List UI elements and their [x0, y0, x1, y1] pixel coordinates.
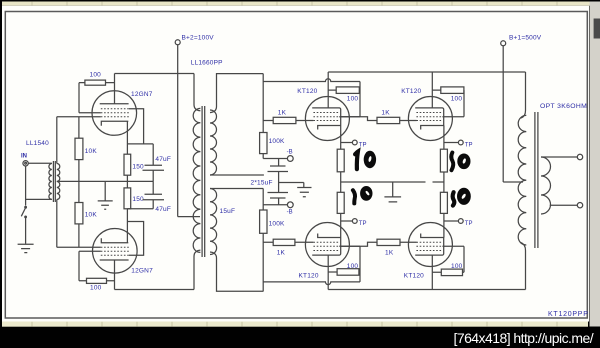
vacuum tube U1 12GN7 upper envelope — [92, 91, 137, 136]
svg-text:100: 100 — [90, 285, 102, 292]
transformer T2 secondary upper winding — [210, 110, 217, 175]
ground G4 — [384, 182, 401, 202]
vacuum tube U2 12GN7 lower envelope — [93, 229, 138, 274]
output terminal lower — [577, 203, 582, 208]
resistor 100 V2 screen — [432, 87, 464, 94]
wire mid ground bus — [57, 180, 153, 182]
transformer T2 primary lead bottom — [194, 250, 200, 289]
ruler ticks top strip — [32, 2, 557, 6]
transformer T1 secondary winding — [57, 164, 60, 200]
svg-text:LL1540: LL1540 — [26, 140, 49, 147]
V3 plate — [312, 238, 341, 256]
scrollbar thumb — [594, 19, 600, 39]
capacitor 47uF upper — [127, 144, 164, 182]
V2 grid g3 dashed — [416, 112, 442, 114]
resistor 150 upper — [124, 121, 131, 181]
test point TP4 — [444, 219, 463, 224]
resistor 100 V1 screen — [328, 87, 360, 94]
resistor 100 V3 screen — [328, 269, 360, 276]
svg-text:KT120: KT120 — [404, 273, 424, 280]
V4 plate — [415, 238, 444, 256]
U2 grid g3 dashed — [101, 254, 129, 256]
wire left chain bottom — [340, 213, 342, 237]
vacuum tube V3 KT120 lower-left envelope — [305, 223, 349, 267]
wire upper plate bus — [328, 71, 525, 73]
wire transformer primary bottom lead — [26, 198, 52, 200]
resistor 1K upper-left — [263, 117, 313, 123]
svg-text:100: 100 — [90, 71, 102, 78]
resistor 100K upper — [260, 133, 267, 159]
svg-text:KT120: KT120 — [299, 272, 319, 279]
svg-text:[764x418] http://upic.me/: [764x418] http://upic.me/ — [454, 330, 594, 346]
wire right cathode chain top — [443, 126, 445, 150]
handwritten 10 lower-left — [353, 186, 373, 203]
test point TP1 — [341, 140, 357, 145]
wire B+2 to LL1660 primary center tap — [178, 216, 200, 218]
V3 g2 stub right — [339, 245, 360, 247]
ruler ticks bottom strip — [32, 322, 557, 327]
V2 grid g1 dashed — [416, 120, 442, 122]
supply terminal B+2 — [175, 40, 180, 217]
wire feedback entry to U1 g2 row — [79, 112, 101, 114]
wire cathode ground bus — [341, 181, 444, 183]
wire U1 g3 to cathode node — [129, 109, 144, 144]
svg-text:100: 100 — [451, 263, 463, 270]
resistor 100 upper feedback — [79, 80, 115, 113]
U2 grid g1 dashed — [101, 246, 129, 248]
resistor 1K lower-mid — [339, 239, 416, 246]
V4 grid g2 dashed — [416, 245, 442, 247]
svg-text:TP: TP — [359, 221, 367, 227]
resistor 1K lower-left — [263, 239, 313, 245]
vacuum tube V4 KT120 lower-right envelope — [408, 223, 452, 267]
capacitor 2x15uF upper — [268, 159, 289, 183]
V1 plate — [312, 108, 341, 126]
resistor 10 ohm R-c — [440, 149, 447, 172]
V2 plate lead — [431, 72, 433, 108]
svg-text:-B: -B — [287, 150, 293, 156]
V1 grid g1 dashed — [313, 120, 339, 122]
T3 secondary bottom lead — [550, 204, 578, 206]
T2 secondary lower bottom lead — [210, 252, 263, 291]
V1 g2 stub right — [339, 116, 360, 118]
V2 plate — [415, 108, 444, 126]
V4 cathode — [421, 234, 444, 238]
handwritten 10 upper-right — [451, 153, 470, 171]
wire left cathode chain top — [340, 126, 342, 150]
resistor 10 ohm R-d — [440, 192, 447, 213]
resistor 100 V4 screen — [432, 269, 464, 276]
node bias column vertical upper — [262, 74, 264, 133]
wire jack to transformer primary top — [28, 162, 52, 164]
svg-text:IN: IN — [21, 153, 27, 159]
wire V1 screen node vertical — [359, 82, 361, 117]
transformer T3 core — [535, 112, 538, 248]
svg-text:TP: TP — [359, 142, 367, 148]
handwritten 10 upper-left — [355, 151, 376, 169]
transformer T3 secondary winding — [541, 157, 551, 214]
node bias column vertical lower — [262, 189, 264, 211]
wire U1 anode to LL1660 primary top — [115, 73, 195, 75]
transformer T2 secondary lower winding — [210, 189, 217, 255]
T2 secondary upper top lead — [210, 74, 263, 113]
transformer T3 OPT primary lead top — [521, 72, 526, 118]
svg-text:150: 150 — [132, 196, 144, 203]
wire cap top rail — [263, 158, 287, 160]
V2 grid g2 dashed — [416, 116, 442, 118]
capacitor 47uF lower — [127, 181, 164, 208]
resistor 10 ohm R-a — [337, 149, 344, 172]
T3 secondary top lead — [541, 156, 577, 158]
resistor 10 ohm R-b — [337, 192, 344, 213]
svg-text:2*15uF: 2*15uF — [251, 179, 273, 186]
wire grid drive entry to U1 g1 row — [57, 116, 101, 118]
svg-text:12GN7: 12GN7 — [131, 268, 153, 275]
U1 anode lead — [114, 74, 116, 104]
supply terminal B+1 — [501, 41, 506, 182]
svg-text:1K: 1K — [278, 110, 287, 117]
terminal -B lower — [287, 202, 293, 208]
svg-text:1K: 1K — [385, 249, 394, 256]
U2 plate — [100, 259, 129, 261]
V3 plate lead — [327, 255, 329, 289]
U1 grid g1 dashed — [101, 116, 129, 118]
U1 plate — [100, 103, 129, 105]
wire left chain mid — [340, 172, 342, 193]
transformer T2 core — [202, 106, 205, 257]
wire switch to ground — [25, 218, 27, 244]
U2 cathode — [101, 238, 128, 243]
wire lower plate bus — [328, 289, 525, 291]
svg-text:1K: 1K — [381, 110, 390, 117]
wire V2 screen node vertical — [463, 90, 465, 117]
wire feedback entry to U2 g2 row — [79, 250, 101, 252]
svg-text:100: 100 — [451, 96, 463, 103]
ground G1 — [18, 244, 34, 252]
V4 grid g1 dashed — [416, 241, 442, 243]
V3 grid g2 dashed — [313, 245, 339, 247]
svg-text:KT120: KT120 — [401, 88, 421, 95]
wire grid step upper with hop — [263, 79, 360, 82]
wire right chain bottom — [443, 213, 445, 237]
input jack J1 — [23, 161, 28, 166]
V3 grid g3 dashed — [313, 250, 339, 252]
svg-text:LL1660PP: LL1660PP — [191, 60, 223, 67]
wire cap bottom rail — [263, 204, 287, 206]
vacuum tube V1 KT120 upper-left envelope — [305, 97, 349, 141]
wire U2 anode to LL1660 primary bottom — [115, 289, 195, 291]
tan strip top — [2, 2, 590, 6]
svg-text:TP: TP — [465, 142, 473, 148]
U2 anode lead — [114, 260, 116, 290]
output terminal upper — [577, 154, 582, 159]
resistor 100 lower feedback — [79, 251, 115, 283]
svg-text:100K: 100K — [269, 138, 285, 145]
tan strip bottom — [2, 322, 588, 327]
V1 grid g3 dashed — [313, 112, 339, 114]
U1 grid g3 dashed — [101, 108, 129, 110]
V3 cathode — [318, 234, 341, 238]
wire V4 screen node vertical — [463, 246, 465, 272]
wire V3 screen node vertical — [359, 246, 361, 282]
T2 secondary lower top lead — [210, 188, 263, 190]
svg-text:1K: 1K — [277, 249, 286, 256]
test point TP3 — [444, 140, 463, 145]
svg-text:15uF: 15uF — [220, 208, 236, 215]
svg-text:TP: TP — [465, 221, 473, 227]
test point TP2 — [341, 219, 357, 224]
svg-text:OPT 3K6OHM: OPT 3K6OHM — [540, 103, 587, 110]
svg-text:B+1=500V: B+1=500V — [509, 35, 542, 42]
wire grid drive entry to U2 g1 row — [57, 246, 101, 248]
V1 grid g2 dashed — [313, 116, 339, 118]
transformer T1 LL1540 primary winding — [49, 164, 52, 200]
resistor 1K upper-mid — [339, 117, 416, 124]
ground G2 — [98, 181, 113, 209]
T2 secondary upper bottom lead — [210, 174, 264, 176]
svg-text:150: 150 — [132, 163, 144, 170]
svg-text:B+2=100V: B+2=100V — [182, 34, 215, 41]
svg-text:100K: 100K — [269, 221, 285, 228]
switch SW1 — [21, 206, 26, 217]
V1 cathode — [318, 126, 341, 130]
V3 grid g1 dashed — [313, 241, 339, 243]
resistor 100K lower — [260, 210, 267, 291]
U1 grid g2 dashed — [101, 112, 129, 114]
capacitor 2x15uF lower — [268, 183, 289, 205]
transformer T3 primary lead bottom — [521, 243, 526, 290]
wire secondary top lead up to upper grid — [56, 117, 58, 164]
resistor 10K lower — [75, 181, 83, 247]
wire secondary bottom lead down to lower grid — [56, 200, 58, 248]
V4 grid g3 dashed — [416, 250, 442, 252]
svg-text:10K: 10K — [85, 212, 98, 219]
svg-text:100: 100 — [347, 96, 359, 103]
wire right chain mid — [443, 172, 445, 192]
scrollbar track right — [590, 2, 600, 327]
transformer T1 core — [53, 161, 55, 202]
svg-text:47uF: 47uF — [155, 156, 171, 163]
wire B+1 to OPT center tap — [503, 181, 523, 183]
transformer T3 primary winding — [518, 115, 526, 245]
svg-text:12GN7: 12GN7 — [131, 91, 153, 98]
terminal -B upper — [287, 156, 293, 162]
ground G3 — [297, 183, 311, 197]
U2 grid g2 dashed — [101, 250, 129, 252]
V4 plate lead — [431, 255, 433, 289]
wire U2 g3 to cathode node — [128, 222, 144, 256]
wire cap mid to ground — [279, 182, 304, 184]
V2 cathode — [421, 126, 444, 130]
resistor 10K upper — [75, 117, 83, 182]
transformer T2 primary winding — [193, 108, 200, 252]
vacuum tube V2 KT120 upper-right envelope — [408, 97, 452, 141]
svg-text:100: 100 — [347, 263, 359, 270]
handwritten 10 lower-right — [453, 188, 471, 206]
transformer T2 LL1660PP primary lead top — [194, 74, 200, 111]
svg-text:KT120: KT120 — [297, 88, 317, 95]
svg-text:10K: 10K — [85, 148, 98, 155]
svg-text:47uF: 47uF — [155, 206, 171, 213]
U1 cathode — [101, 121, 128, 126]
svg-text:KT120PPP: KT120PPP — [548, 311, 589, 318]
V1 plate lead — [327, 72, 329, 108]
svg-text:-B: -B — [287, 210, 293, 216]
wire grid step lower with hop — [263, 282, 360, 285]
V2 g2 stub right — [442, 116, 464, 118]
V4 g2 stub right — [442, 245, 464, 247]
wire jack down to switch — [25, 166, 27, 206]
resistor 150 lower — [124, 181, 131, 242]
